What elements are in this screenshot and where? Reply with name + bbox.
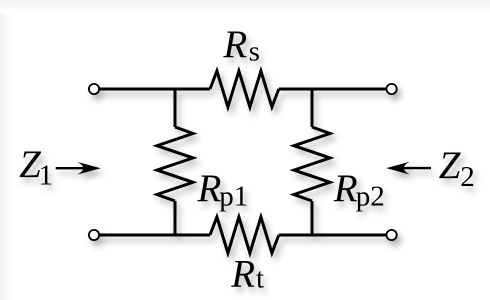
wire bottom-left segment	[100, 234, 211, 237]
svg-text:Z: Z	[439, 144, 462, 187]
wire top-right segment	[279, 88, 387, 91]
svg-text:s: s	[249, 36, 260, 68]
label Rp1	[197, 167, 249, 213]
resistor Rt zigzag	[210, 217, 279, 253]
wire right junction bottom stub	[311, 201, 314, 237]
wire left junction bottom stub	[174, 201, 177, 237]
resistor Rs zigzag	[210, 71, 279, 107]
svg-text:t: t	[256, 262, 264, 294]
terminal port top-left	[89, 84, 99, 94]
wire top-left segment	[100, 88, 211, 91]
label Z2	[439, 144, 475, 193]
svg-text:1: 1	[39, 160, 54, 192]
terminal port top-right	[387, 84, 397, 94]
svg-text:2: 2	[460, 161, 475, 193]
resistor Rp2 zigzag	[294, 127, 330, 201]
svg-text:p2: p2	[356, 181, 385, 213]
wire left junction top stub	[174, 88, 177, 128]
wire right junction top stub	[311, 88, 314, 128]
label Rp2	[333, 167, 385, 213]
label Rt	[230, 252, 264, 295]
svg-text:R: R	[197, 167, 222, 210]
resistor Rp1 zigzag	[157, 127, 193, 201]
arrow into port 2 (points left)	[386, 162, 431, 175]
wire bottom-right segment	[279, 234, 387, 237]
label Rs	[222, 23, 259, 68]
arrow into port 1 (points right)	[56, 162, 101, 175]
terminal port bottom-left	[89, 230, 99, 240]
svg-text:p1: p1	[219, 181, 248, 213]
svg-text:R: R	[230, 252, 255, 295]
terminal port bottom-right	[387, 230, 397, 240]
svg-text:R: R	[333, 167, 358, 210]
label Z1	[19, 143, 53, 192]
svg-text:R: R	[222, 23, 247, 66]
